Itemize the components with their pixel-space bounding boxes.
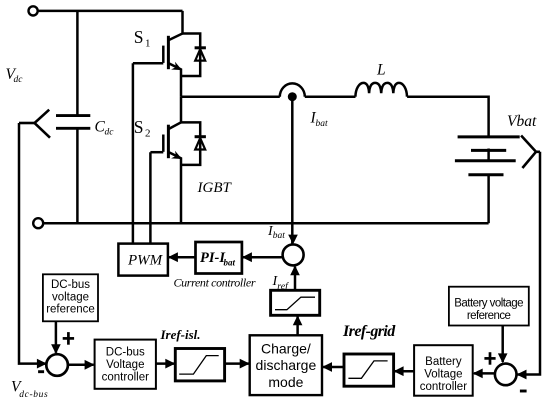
S1 gate lead (133, 62, 163, 65)
wire phase rail left (181, 95, 280, 98)
summing junction battery (495, 364, 517, 386)
svg-text:Battery: Battery (425, 356, 462, 368)
arrowhead into PWM box (168, 252, 178, 262)
label Iref (272, 274, 290, 292)
label minus right (520, 390, 527, 393)
terminal top-left DC+ (28, 6, 37, 15)
wire circle to PI (243, 256, 283, 259)
battery Vbat (455, 137, 520, 175)
label Vdc-bus (11, 379, 48, 400)
saturation block sat3 (344, 354, 394, 386)
S2 collector (168, 97, 181, 129)
wire S1 gate to PWM (132, 63, 135, 243)
arrowhead into sat3 (394, 366, 404, 376)
S1 channel bar (167, 36, 170, 69)
svg-text:DC-bus: DC-bus (106, 346, 145, 358)
svg-text:Voltage: Voltage (424, 368, 462, 380)
svg-text:reference: reference (467, 310, 511, 322)
wire Ibat sense down (291, 97, 294, 244)
svg-text:1: 1 (145, 37, 151, 49)
DC-bus Voltage controller box (95, 340, 156, 389)
label Cdc (95, 119, 115, 138)
IGBT S1 (133, 11, 183, 97)
svg-text:discharge: discharge (256, 357, 317, 373)
label Vdc (6, 66, 24, 85)
wire right circle to batV controller (474, 372, 495, 375)
svg-text:voltage: voltage (52, 291, 89, 303)
current sensor arc (280, 83, 305, 96)
svg-text:L: L (376, 62, 386, 79)
label Ibat above circle (267, 224, 285, 241)
svg-text:PWM: PWM (127, 253, 164, 269)
wire battery bottom (487, 175, 490, 224)
wire circle to DC-bus controller (68, 364, 94, 367)
arrowhead into charge box right (322, 362, 332, 372)
wire sat1 to circle (294, 267, 297, 291)
saturation block sat1 (271, 290, 320, 315)
S2 gate bar (162, 135, 165, 152)
wire sat2 to charge box (225, 362, 249, 365)
S1 collector (168, 11, 182, 40)
arrowhead into batV controller (473, 369, 483, 379)
S1 emitter (168, 63, 181, 97)
label S2 (134, 117, 151, 139)
svg-text:PI-I: PI-I (200, 250, 226, 266)
svg-text:controller: controller (102, 371, 149, 383)
S1 gate bar (162, 46, 165, 63)
arrowhead Vdc-bus into circle (37, 359, 47, 369)
summing junction DC-bus (46, 354, 68, 376)
PI-Ibat box (196, 242, 242, 274)
wire PI to PWM (169, 256, 196, 259)
svg-text:IGBT: IGBT (197, 180, 233, 196)
svg-text:mode: mode (268, 374, 303, 390)
svg-text:Iref-isl.: Iref-isl. (160, 327, 201, 342)
svg-text:dc: dc (14, 75, 24, 85)
arrowhead Ibat into circle (288, 235, 298, 245)
S1 emitter arrow (171, 62, 182, 70)
arrowhead into right summing circle (517, 370, 527, 380)
svg-text:S: S (134, 27, 144, 47)
svg-text:bat: bat (273, 231, 286, 241)
wire Vdc-bus sense line (19, 123, 47, 364)
label minus left (38, 370, 44, 373)
S2 emitter arrow (171, 151, 182, 159)
DC-bus voltage reference box (43, 274, 98, 321)
saturation block sat2 (175, 349, 224, 381)
label plus left (63, 332, 74, 345)
wire bottom rail (43, 222, 488, 225)
IGBT S2 (150, 97, 182, 224)
svg-text:2: 2 (145, 128, 151, 140)
diode D1 (181, 34, 206, 77)
voltage arrow Vdc sense (19, 110, 50, 138)
label Ibat at sensor (310, 110, 329, 130)
svg-text:dc: dc (105, 128, 115, 138)
svg-text:bat: bat (224, 258, 236, 268)
Battery voltage reference box (449, 287, 529, 326)
capacitor Cdc (56, 116, 90, 129)
svg-text:Iref-grid: Iref-grid (342, 323, 396, 340)
svg-text:Charge/: Charge/ (261, 340, 311, 356)
Battery Voltage controller box (414, 345, 473, 396)
PWM box (118, 244, 167, 276)
svg-text:Current controller: Current controller (174, 276, 256, 290)
wire batV ref to right circle (501, 326, 504, 363)
svg-text:S: S (134, 117, 144, 137)
Charge/discharge mode box (250, 335, 322, 395)
voltage arrow Vbat sense (521, 136, 540, 169)
S2 channel bar (167, 125, 170, 159)
inductor L (355, 83, 407, 97)
wire controller to sat2 (156, 362, 174, 365)
wire Cdc bottom branch (76, 130, 79, 224)
svg-text:Vbat: Vbat (507, 113, 537, 130)
svg-text:reference: reference (46, 304, 95, 316)
wire S2 gate to PWM (149, 152, 152, 243)
wire Vbat sense line (517, 152, 540, 375)
svg-text:Battery voltage: Battery voltage (454, 298, 523, 310)
arrowhead ref into circle (51, 344, 61, 354)
wire phase rail right (407, 97, 489, 137)
current sensor dot (288, 92, 297, 101)
wire charge box to sat1 (296, 317, 299, 336)
S2 gate lead (150, 151, 163, 154)
arrowhead into sat1 (293, 315, 303, 325)
wire phase rail mid (305, 95, 356, 98)
wire top rail (38, 10, 183, 13)
wire batV controller to sat3 (395, 370, 414, 373)
wire ref to summing circle (55, 321, 58, 353)
battery inter-cell stub (487, 149, 490, 161)
arrowhead into DC-bus controller (85, 360, 95, 370)
arrowhead batV ref into circle (498, 353, 508, 363)
svg-text:DC-bus: DC-bus (51, 279, 90, 291)
svg-text:bat: bat (316, 119, 329, 129)
S2 emitter (168, 152, 181, 223)
wire Cdc top branch (76, 11, 79, 115)
label S1 (134, 27, 151, 50)
diode D2 (181, 122, 206, 164)
terminal bottom-left DC- (33, 218, 43, 228)
arrowhead Iref into circle (290, 265, 300, 275)
summing junction current (283, 244, 304, 265)
svg-text:Voltage: Voltage (106, 359, 144, 371)
arrowhead into charge box (240, 359, 250, 369)
arrowhead into sat2 (165, 359, 175, 369)
svg-text:dc-bus: dc-bus (19, 390, 48, 400)
wire sat3 to charge box (323, 366, 344, 369)
arrowhead into PI box (242, 252, 252, 262)
label plus right (484, 352, 495, 365)
svg-text:controller: controller (420, 381, 467, 393)
